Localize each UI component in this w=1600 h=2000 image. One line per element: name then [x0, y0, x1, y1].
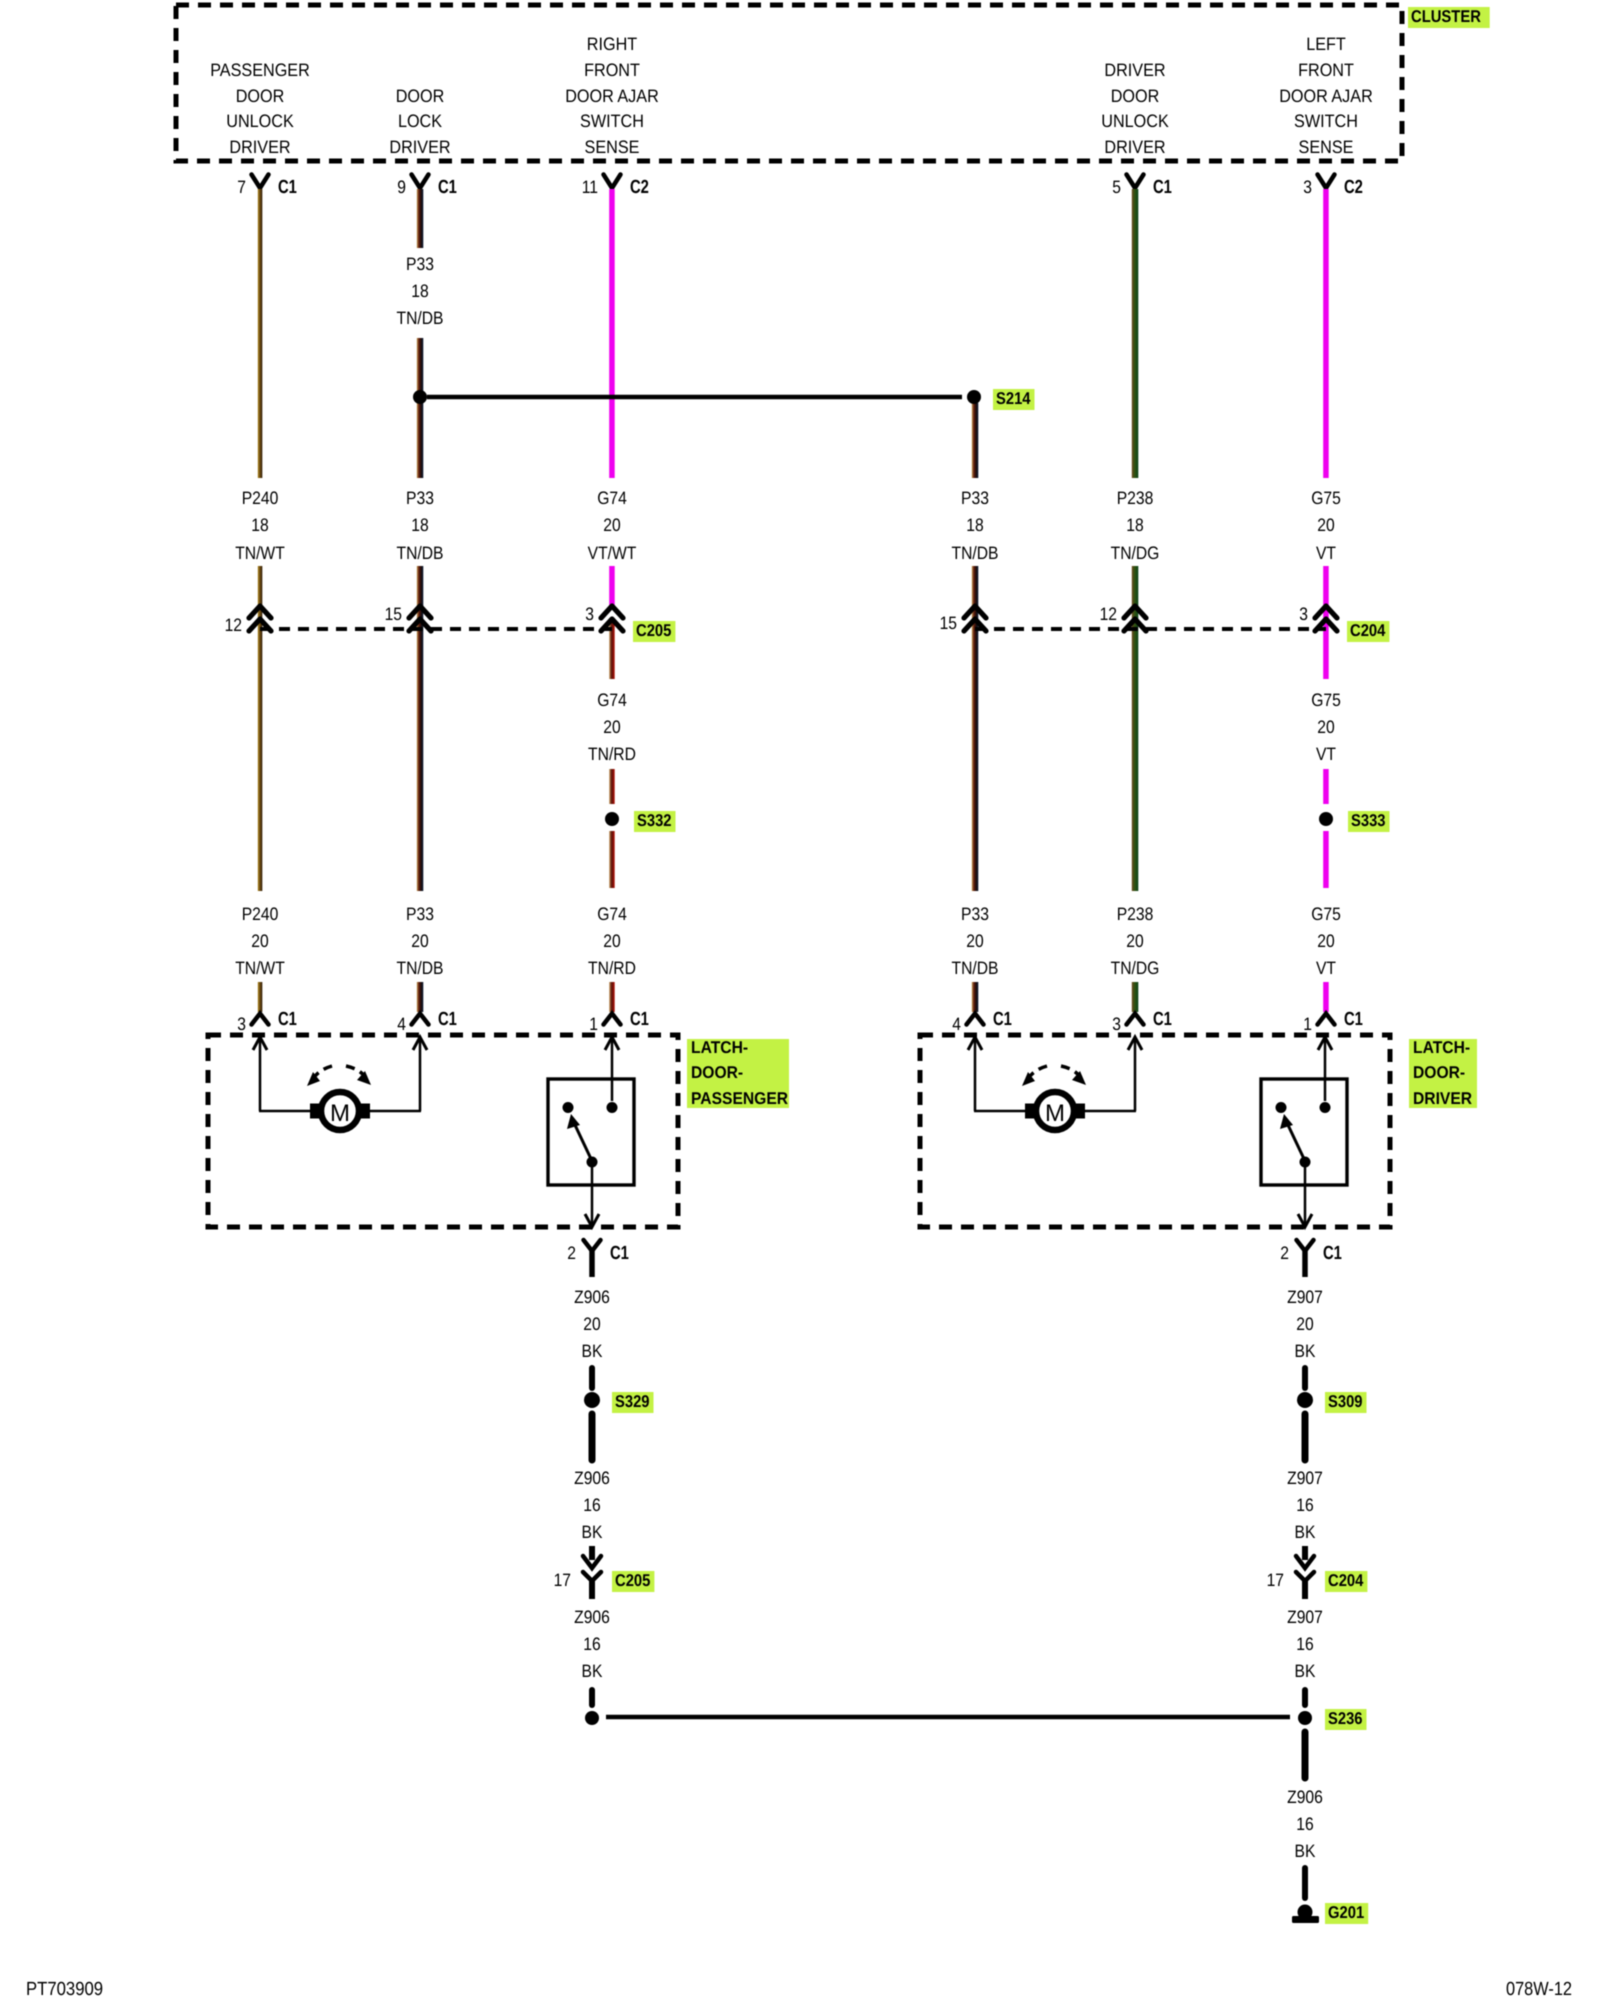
- svg-text:TN/WT: TN/WT: [235, 958, 285, 978]
- svg-text:1: 1: [589, 1014, 598, 1034]
- wire G74 20 TN/RD segment: [609, 831, 615, 888]
- wire switch sense feed passenger: [611, 1040, 614, 1101]
- wire motor feed left driver: [974, 1040, 977, 1111]
- wire Z907 20 BK segment: [1302, 1368, 1308, 1388]
- svg-text:2: 2: [567, 1243, 576, 1263]
- svg-text:18: 18: [411, 281, 428, 301]
- svg-text:S214: S214: [996, 389, 1031, 408]
- wire G74 20 VT/WT segment: [609, 566, 615, 609]
- svg-text:CLUSTER: CLUSTER: [1411, 7, 1481, 26]
- svg-text:LEFT: LEFT: [1306, 34, 1346, 54]
- svg-text:UNLOCK: UNLOCK: [226, 111, 294, 131]
- svg-text:DOOR-: DOOR-: [691, 1063, 743, 1082]
- connector C205 pin 17: [589, 1546, 595, 1560]
- svg-text:20: 20: [603, 931, 620, 951]
- switch contact left driver: [1276, 1102, 1287, 1113]
- wire G75 20 VT segment: [1323, 831, 1329, 888]
- svg-text:P33: P33: [406, 488, 434, 508]
- wire Z906 20 BK segment: [589, 1368, 595, 1388]
- svg-text:BK: BK: [582, 1522, 603, 1542]
- svg-text:Z906: Z906: [574, 1287, 610, 1307]
- svg-text:P238: P238: [1117, 904, 1154, 924]
- wire P33 18 TN/DB segment: [417, 566, 424, 891]
- connector C205 pin 3: [601, 606, 623, 618]
- svg-text:4: 4: [952, 1014, 961, 1034]
- wire motor feed right driver: [1084, 1110, 1136, 1113]
- svg-text:Z907: Z907: [1287, 1287, 1323, 1307]
- wire switch output driver: [1304, 1161, 1307, 1224]
- svg-text:20: 20: [1296, 1314, 1313, 1334]
- svg-text:C1: C1: [993, 1009, 1012, 1030]
- svg-text:VT: VT: [1316, 958, 1336, 978]
- svg-text:Z907: Z907: [1287, 1468, 1323, 1488]
- svg-text:Z906: Z906: [574, 1607, 610, 1627]
- svg-text:TN/DB: TN/DB: [952, 543, 999, 563]
- svg-text:FRONT: FRONT: [584, 60, 640, 80]
- connector C204 dashed link: [975, 627, 1326, 631]
- svg-text:P33: P33: [961, 488, 989, 508]
- svg-text:DOOR-: DOOR-: [1413, 1063, 1465, 1082]
- motor rotation arrows driver: [1027, 1066, 1047, 1080]
- connector pin 3 C2: [1318, 175, 1335, 189]
- latch box driver: [920, 1035, 1390, 1227]
- svg-text:C205: C205: [615, 1571, 650, 1590]
- wire P33 18 TN/DB segment: [972, 566, 979, 891]
- svg-text:15: 15: [940, 613, 957, 633]
- connector pin 2 C1 passenger latch: [584, 1240, 601, 1251]
- svg-text:G74: G74: [597, 690, 627, 710]
- svg-text:15: 15: [385, 604, 402, 624]
- svg-text:20: 20: [583, 1314, 600, 1334]
- splice S214: [967, 390, 981, 404]
- svg-text:PASSENGER: PASSENGER: [691, 1089, 788, 1108]
- svg-text:C1: C1: [630, 1009, 649, 1030]
- svg-text:DRIVER: DRIVER: [1104, 60, 1165, 80]
- connector C205 label: [612, 1571, 654, 1592]
- svg-text:DRIVER: DRIVER: [389, 137, 450, 157]
- svg-text:DOOR: DOOR: [396, 86, 445, 106]
- wire G75 20 VT segment: [1323, 566, 1329, 679]
- svg-text:TN/DB: TN/DB: [397, 958, 444, 978]
- svg-text:12: 12: [225, 615, 242, 635]
- svg-text:S309: S309: [1328, 1392, 1363, 1411]
- switch contact right passenger: [607, 1102, 618, 1113]
- svg-text:G74: G74: [597, 488, 627, 508]
- svg-text:TN/DG: TN/DG: [1111, 958, 1160, 978]
- svg-text:12: 12: [1100, 604, 1117, 624]
- svg-text:16: 16: [583, 1495, 600, 1515]
- connector C204 pin 17: [1302, 1546, 1308, 1560]
- svg-text:P33: P33: [406, 254, 434, 274]
- svg-text:20: 20: [1317, 515, 1334, 535]
- svg-text:C204: C204: [1328, 1571, 1364, 1590]
- svg-text:3: 3: [237, 1014, 246, 1034]
- svg-text:P33: P33: [961, 904, 989, 924]
- svg-text:20: 20: [966, 931, 983, 951]
- svg-text:TN/DB: TN/DB: [952, 958, 999, 978]
- wire P33 18 TN/DB segment: [417, 189, 424, 248]
- svg-text:VT/WT: VT/WT: [588, 543, 637, 563]
- connector C204 pin 12: [1124, 606, 1146, 618]
- svg-text:9: 9: [397, 177, 406, 197]
- svg-text:BK: BK: [1295, 1341, 1316, 1361]
- wire Z907 16 BK segment: [1302, 1690, 1308, 1705]
- svg-text:G75: G75: [1311, 488, 1341, 508]
- svg-text:20: 20: [603, 717, 620, 737]
- svg-text:BK: BK: [1295, 1841, 1316, 1861]
- svg-text:S332: S332: [637, 811, 672, 830]
- svg-text:S333: S333: [1351, 811, 1386, 830]
- wire P240 20 TN/WT segment: [258, 982, 263, 1012]
- svg-text:C204: C204: [1350, 621, 1386, 640]
- wire P33 18 TN/DB segment: [417, 338, 424, 391]
- connector C204 pin 15: [964, 606, 986, 618]
- svg-text:G75: G75: [1311, 904, 1341, 924]
- wire switch output passenger: [591, 1161, 594, 1224]
- wire Z906 16 BK segment: [1302, 1868, 1308, 1898]
- connector C204 label: [1325, 1571, 1367, 1592]
- wire motor feed right passenger: [369, 1110, 421, 1113]
- svg-text:3: 3: [1299, 604, 1308, 624]
- wire G75 20 VT segment: [1323, 769, 1329, 804]
- latch driver label: [1409, 1039, 1477, 1108]
- svg-text:LATCH-: LATCH-: [691, 1038, 748, 1057]
- svg-text:Z907: Z907: [1287, 1607, 1323, 1627]
- wire P240 18 TN/WT segment: [258, 566, 263, 891]
- svg-text:C205: C205: [636, 621, 671, 640]
- svg-text:18: 18: [411, 515, 428, 535]
- svg-text:BK: BK: [1295, 1522, 1316, 1542]
- cluster module box: [176, 5, 1402, 161]
- connector pin 5 C1: [1127, 175, 1144, 189]
- svg-text:M: M: [1045, 1100, 1065, 1127]
- connector C205 dashed link: [260, 627, 612, 631]
- svg-text:G74: G74: [597, 904, 627, 924]
- svg-text:DOOR: DOOR: [236, 86, 285, 106]
- svg-text:11: 11: [582, 177, 598, 197]
- wire G74 20 TN/RD segment: [609, 618, 615, 679]
- wire Z906 16 BK segment: [589, 1690, 595, 1705]
- wire switch sense feed driver: [1324, 1040, 1327, 1101]
- ajar switch driver: [1261, 1079, 1347, 1185]
- connector pin 11 C2: [604, 175, 621, 189]
- node CLUSTER: [1408, 7, 1490, 28]
- connector C205 label: [633, 621, 675, 642]
- connector pin 4 C1 latch passenger: [412, 1014, 429, 1025]
- svg-text:SENSE: SENSE: [585, 137, 640, 157]
- svg-text:C1: C1: [438, 177, 457, 198]
- svg-text:G201: G201: [1328, 1903, 1364, 1922]
- motor rotation arrows passenger: [312, 1066, 332, 1080]
- svg-text:VT: VT: [1316, 543, 1336, 563]
- svg-text:C2: C2: [630, 177, 649, 198]
- svg-text:TN/DB: TN/DB: [397, 308, 444, 328]
- svg-text:C1: C1: [1323, 1243, 1342, 1264]
- splice S332: [605, 812, 619, 826]
- wire G75 20 VT segment: [1323, 189, 1329, 478]
- svg-text:SENSE: SENSE: [1299, 137, 1354, 157]
- wire P238 18 TN/DG segment: [1132, 566, 1139, 891]
- svg-text:C1: C1: [1153, 1009, 1172, 1030]
- svg-text:BK: BK: [582, 1341, 603, 1361]
- svg-text:16: 16: [1296, 1634, 1313, 1654]
- svg-text:2: 2: [1280, 1243, 1289, 1263]
- svg-text:PASSENGER: PASSENGER: [210, 60, 310, 80]
- wire P33 20 TN/DB segment: [972, 982, 979, 1012]
- svg-text:LOCK: LOCK: [398, 111, 442, 131]
- ajar switch passenger: [548, 1079, 634, 1185]
- connector C205 pin 15: [409, 606, 431, 618]
- svg-text:TN/WT: TN/WT: [235, 543, 285, 563]
- motor M driver: [1025, 1104, 1037, 1119]
- switch lever driver: [1288, 1125, 1305, 1161]
- switch contact left passenger: [563, 1102, 574, 1113]
- svg-text:16: 16: [1296, 1495, 1313, 1515]
- splice S236: [1298, 1711, 1312, 1725]
- connector C205 pin 12: [249, 606, 271, 618]
- svg-text:Z906: Z906: [1287, 1787, 1323, 1807]
- svg-text:SWITCH: SWITCH: [1294, 111, 1358, 131]
- svg-text:DOOR AJAR: DOOR AJAR: [1279, 86, 1373, 106]
- svg-text:1: 1: [1303, 1014, 1312, 1034]
- svg-text:20: 20: [411, 931, 428, 951]
- svg-text:C2: C2: [1344, 177, 1363, 198]
- junction on P33 wire: [413, 390, 427, 404]
- wire P33 18 TN/DB segment: [417, 403, 424, 478]
- svg-text:17: 17: [1267, 1570, 1284, 1590]
- svg-text:P238: P238: [1117, 488, 1154, 508]
- svg-text:TN/RD: TN/RD: [588, 744, 636, 764]
- svg-text:3: 3: [1112, 1014, 1121, 1034]
- svg-text:18: 18: [966, 515, 983, 535]
- wire P240 18 TN/WT segment: [258, 189, 263, 478]
- svg-text:M: M: [330, 1100, 350, 1127]
- switch pivot driver: [1300, 1157, 1311, 1168]
- svg-text:DRIVER: DRIVER: [1413, 1089, 1472, 1108]
- connector pin 9 C1: [412, 175, 429, 189]
- svg-text:SWITCH: SWITCH: [580, 111, 644, 131]
- svg-text:078W-12: 078W-12: [1506, 1979, 1572, 2000]
- svg-text:P33: P33: [406, 904, 434, 924]
- svg-text:DOOR: DOOR: [1111, 86, 1160, 106]
- ground G201: [1298, 1905, 1313, 1920]
- svg-text:PT703909: PT703909: [26, 1979, 103, 2000]
- svg-text:S329: S329: [615, 1392, 650, 1411]
- wire Z906 16 BK segment: [1302, 1732, 1309, 1778]
- wire P238 18 TN/DG segment: [1132, 189, 1139, 478]
- connector pin 1 C1 latch passenger: [604, 1014, 621, 1025]
- svg-text:20: 20: [251, 931, 268, 951]
- svg-text:BK: BK: [1295, 1661, 1316, 1681]
- svg-text:S236: S236: [1328, 1709, 1363, 1728]
- svg-text:3: 3: [1303, 177, 1312, 197]
- wire G74 20 TN/RD segment: [609, 769, 615, 804]
- svg-text:Z906: Z906: [574, 1468, 610, 1488]
- svg-text:P240: P240: [242, 488, 279, 508]
- latch passenger label: [687, 1039, 789, 1108]
- svg-text:7: 7: [237, 177, 246, 197]
- wire motor feed left passenger: [259, 1040, 262, 1111]
- svg-text:C1: C1: [610, 1243, 629, 1264]
- svg-text:G75: G75: [1311, 690, 1341, 710]
- svg-text:LATCH-: LATCH-: [1413, 1038, 1470, 1057]
- svg-text:16: 16: [583, 1634, 600, 1654]
- svg-text:4: 4: [397, 1014, 406, 1034]
- splice S329: [584, 1392, 600, 1408]
- connector pin 2 C1 driver latch: [1297, 1240, 1314, 1251]
- svg-text:DRIVER: DRIVER: [229, 137, 290, 157]
- svg-text:20: 20: [603, 515, 620, 535]
- svg-text:FRONT: FRONT: [1298, 60, 1354, 80]
- svg-text:C1: C1: [438, 1009, 457, 1030]
- svg-text:18: 18: [1126, 515, 1143, 535]
- svg-text:5: 5: [1112, 177, 1121, 197]
- wire G74 20 TN/RD segment: [609, 982, 615, 1012]
- connector pin 1 C1 latch driver: [1318, 1014, 1335, 1025]
- svg-text:TN/DB: TN/DB: [397, 543, 444, 563]
- svg-text:16: 16: [1296, 1814, 1313, 1834]
- latch box passenger: [208, 1035, 678, 1227]
- svg-text:BK: BK: [582, 1661, 603, 1681]
- switch contact right driver: [1320, 1102, 1331, 1113]
- switch pivot passenger: [587, 1157, 598, 1168]
- wire P238 20 TN/DG segment: [1132, 982, 1139, 1012]
- wire G75 20 VT segment: [1323, 982, 1329, 1012]
- svg-text:18: 18: [251, 515, 268, 535]
- switch lever passenger: [575, 1125, 592, 1161]
- svg-text:UNLOCK: UNLOCK: [1101, 111, 1169, 131]
- svg-text:DRIVER: DRIVER: [1104, 137, 1165, 157]
- svg-text:VT: VT: [1316, 744, 1336, 764]
- svg-text:20: 20: [1317, 717, 1334, 737]
- svg-text:20: 20: [1317, 931, 1334, 951]
- svg-text:3: 3: [585, 604, 594, 624]
- connector pin 7 C1: [252, 175, 269, 189]
- svg-text:C1: C1: [278, 1009, 297, 1030]
- connector pin 3 C1 latch passenger: [252, 1014, 269, 1025]
- splice S309: [1297, 1392, 1313, 1408]
- svg-text:RIGHT: RIGHT: [587, 34, 637, 54]
- connector C204 pin 3: [1315, 606, 1337, 618]
- svg-text:P240: P240: [242, 904, 279, 924]
- svg-text:DOOR AJAR: DOOR AJAR: [565, 86, 659, 106]
- connector pin 3 C1 latch driver: [1127, 1014, 1144, 1025]
- connector pin 4 C1 latch driver: [967, 1014, 984, 1025]
- svg-text:TN/RD: TN/RD: [588, 958, 636, 978]
- svg-text:20: 20: [1126, 931, 1143, 951]
- wire ground jumper Z906: [606, 1715, 1290, 1720]
- svg-text:C1: C1: [1344, 1009, 1363, 1030]
- wire Z907 16 BK segment: [1302, 1414, 1309, 1460]
- wire P33 20 TN/DB segment: [417, 982, 424, 1012]
- wire G74 20 VT/WT segment: [609, 189, 615, 478]
- wire Z906 16 BK segment: [589, 1414, 596, 1460]
- splice S333: [1319, 812, 1333, 826]
- svg-text:C1: C1: [1153, 177, 1172, 198]
- svg-text:17: 17: [554, 1570, 571, 1590]
- svg-text:TN/DG: TN/DG: [1111, 543, 1160, 563]
- wire splice jumper to S214: [427, 395, 962, 400]
- motor M passenger: [310, 1104, 322, 1119]
- junction left chain: [585, 1711, 599, 1725]
- connector C204 label: [1347, 621, 1389, 642]
- wire P33 18 TN/DB segment: [972, 403, 979, 478]
- svg-text:C1: C1: [278, 177, 297, 198]
